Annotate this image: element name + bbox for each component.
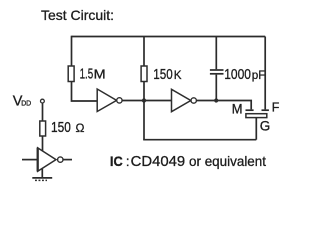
capacitor C1 bottom plate <box>210 73 224 75</box>
wire 150K lower vertical <box>143 82 145 101</box>
resistor R1 1.5M body <box>68 66 74 82</box>
wire G stub from bar to bottom rail <box>255 118 257 140</box>
svg-text:G: G <box>260 119 271 134</box>
op-amp U1c input bar <box>37 148 39 172</box>
op-amp U1c output bubble <box>58 157 63 162</box>
op-amp U1c inverter triangle <box>38 148 56 171</box>
resonator X1 electrode F tick <box>262 109 269 111</box>
svg-text:CD4049: CD4049 <box>131 154 186 170</box>
wire U1c output <box>63 159 72 161</box>
op-amp U1a inverter triangle <box>97 89 116 112</box>
svg-text:1000: 1000 <box>224 67 251 83</box>
op-amp U1b output bubble <box>191 98 196 103</box>
capacitor C1 top plate <box>210 69 224 71</box>
svg-text:IC: IC <box>110 153 123 169</box>
wire U1a output to U1b input <box>122 100 171 102</box>
node A junction dot <box>142 98 146 102</box>
svg-text:150: 150 <box>153 67 172 83</box>
wire U1c to ground <box>41 164 43 178</box>
wire VDD terminal down to 150 ohm resistor <box>42 103 44 121</box>
resistor R2 150K body <box>141 66 147 82</box>
wire right vertical from top rail to F electrode <box>264 37 266 110</box>
wire U1b output to resonator M corner <box>197 101 252 110</box>
svg-text:Ω: Ω <box>76 121 85 135</box>
svg-text:Test Circuit:: Test Circuit: <box>41 7 114 23</box>
svg-text:1.5: 1.5 <box>80 67 94 83</box>
wire 150 ohm resistor down to U1c supply <box>42 136 44 152</box>
svg-text:K: K <box>174 68 182 82</box>
resistor R3 150 ohm body <box>40 121 46 136</box>
ground bar <box>32 177 52 179</box>
op-amp U1a output bubble <box>117 98 122 103</box>
wire 150K upper vertical <box>143 37 145 67</box>
svg-text::: : <box>126 153 130 169</box>
wire U1c input <box>22 159 37 161</box>
wire left vertical upper <box>71 36 73 67</box>
wire left vertical lower + horizontal into U1a input <box>72 82 98 102</box>
capacitor C1 lower lead <box>215 75 217 101</box>
svg-text:M: M <box>94 68 106 82</box>
op-amp U1b inverter triangle <box>172 89 191 111</box>
svg-text:DD: DD <box>21 101 31 108</box>
ground hatching <box>35 179 47 181</box>
node B junction dot <box>214 98 218 102</box>
svg-text:pF: pF <box>252 68 266 82</box>
resonator X1 electrode M tick <box>246 109 254 111</box>
power terminal circle <box>41 99 45 103</box>
resonator X1 bar <box>246 114 267 118</box>
svg-text:M: M <box>232 101 243 117</box>
wire top rail <box>72 36 266 38</box>
svg-text:F: F <box>272 100 280 114</box>
svg-text:150: 150 <box>51 120 71 136</box>
svg-text:or equivalent: or equivalent <box>189 153 266 169</box>
capacitor C1 upper lead <box>215 37 217 70</box>
wire feedback vertical + bottom rail <box>143 101 145 140</box>
